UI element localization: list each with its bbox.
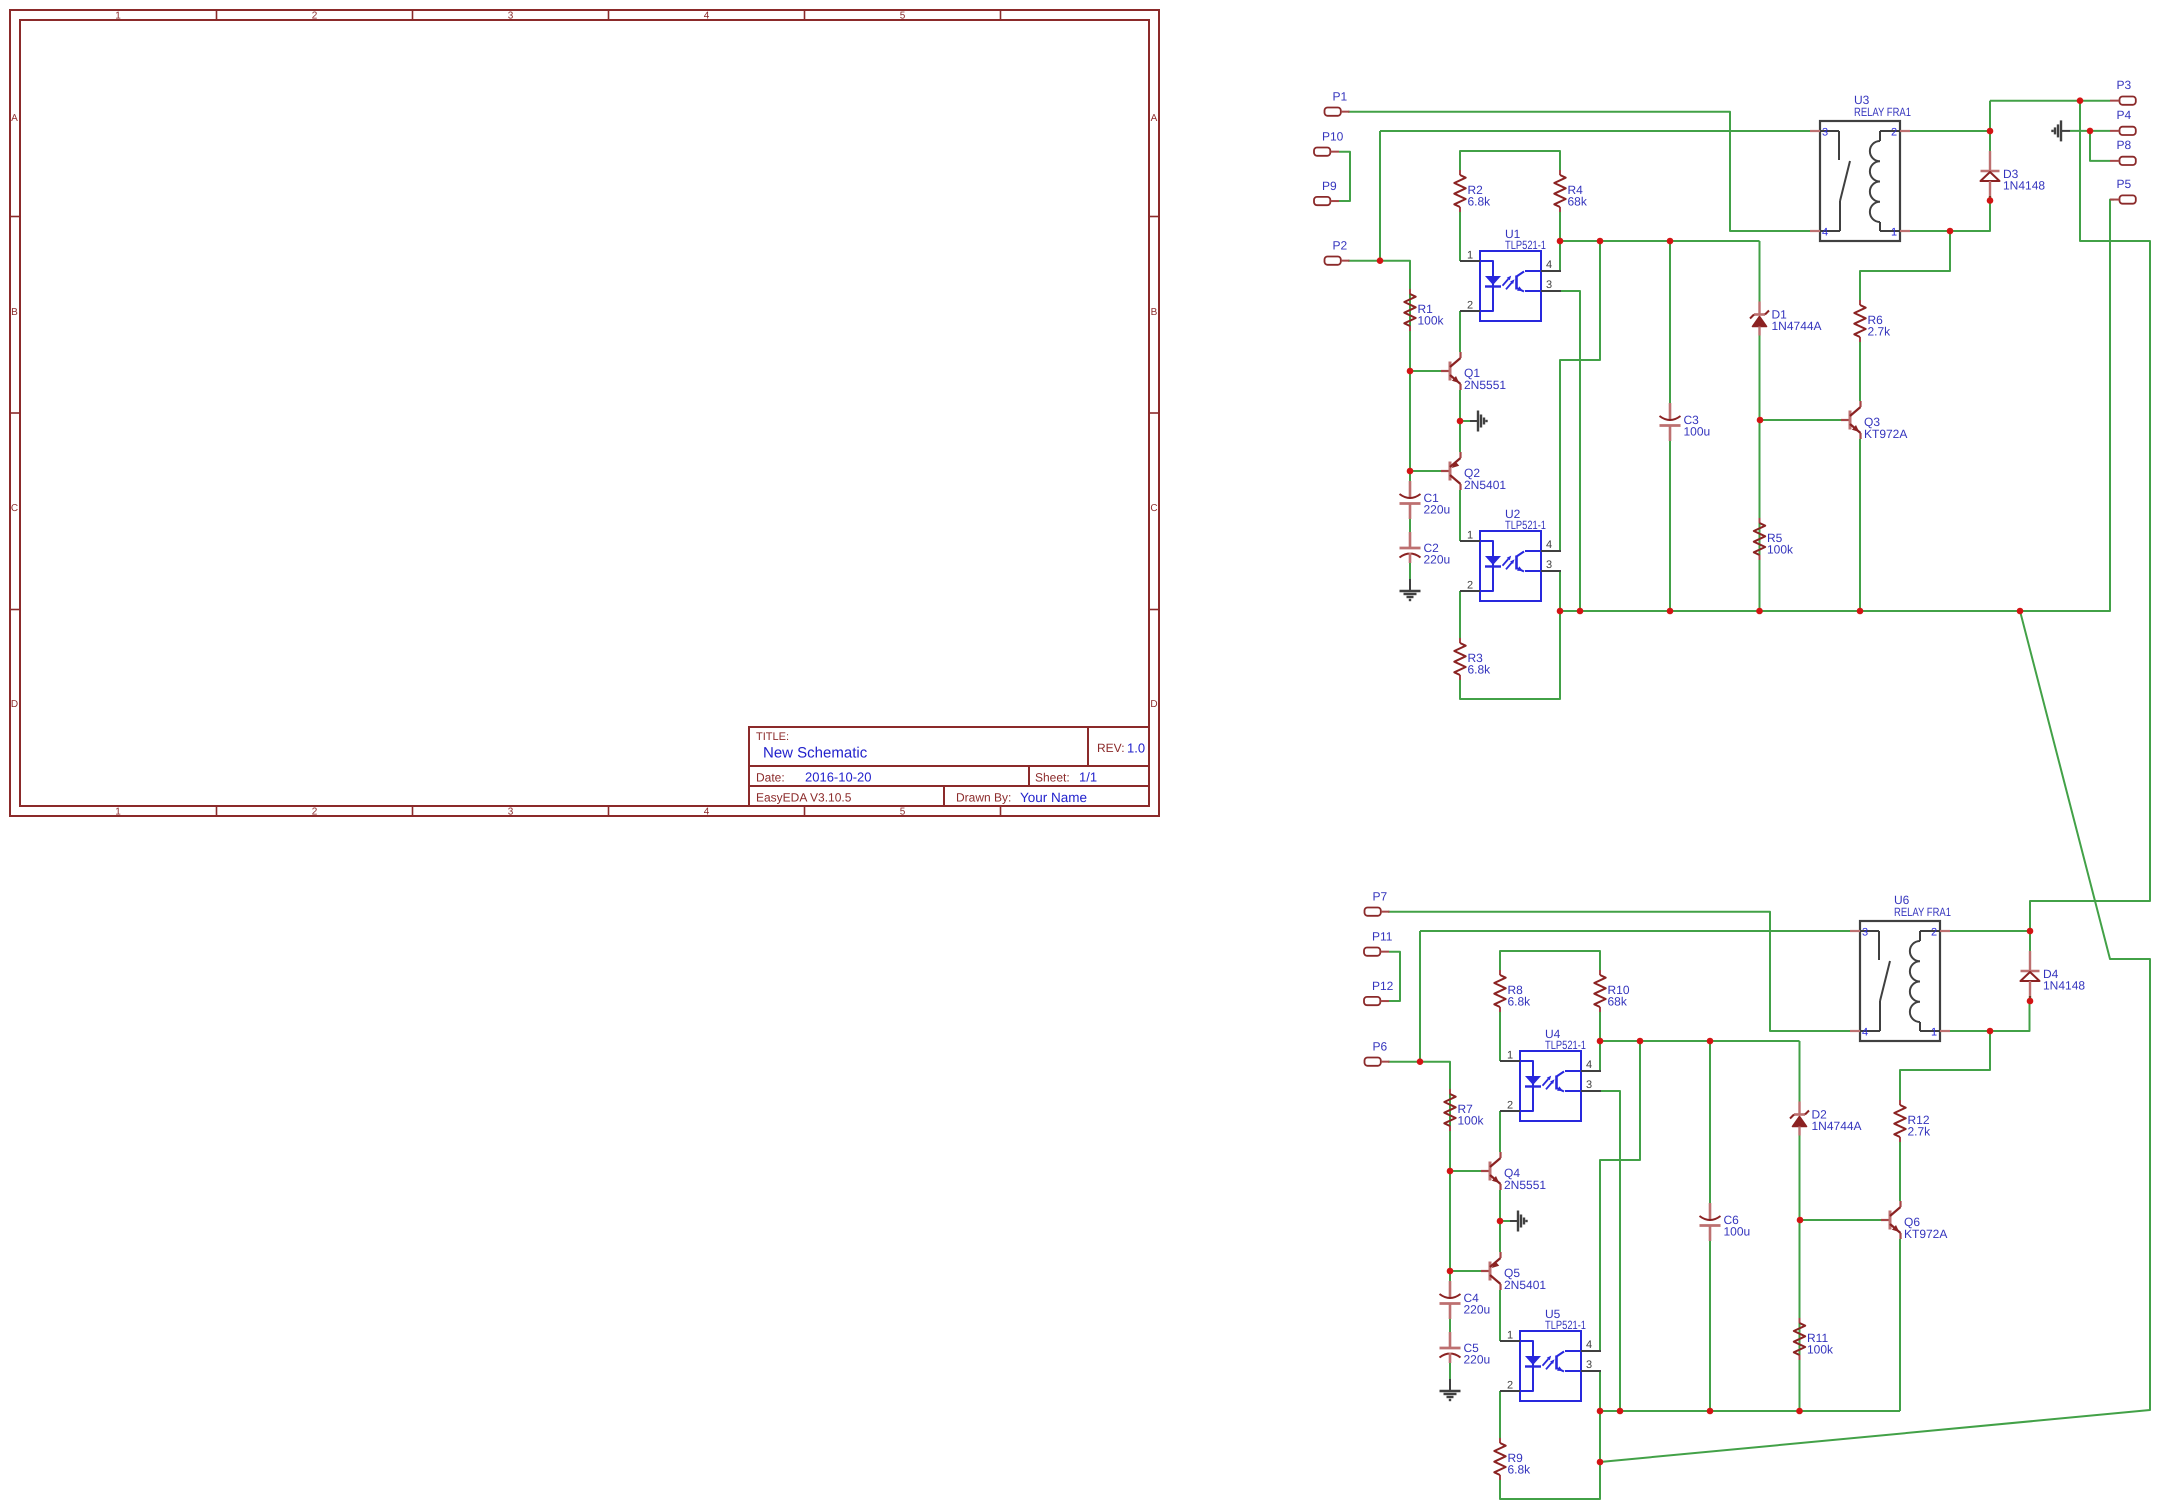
svg-text:TITLE:: TITLE:: [756, 731, 789, 743]
svg-text:2N5401: 2N5401: [1504, 1278, 1546, 1292]
svg-text:3: 3: [1586, 1359, 1592, 1371]
diode D4: [2021, 951, 2086, 1000]
svg-text:68k: 68k: [1608, 995, 1628, 1009]
svg-text:Drawn By:: Drawn By:: [956, 791, 1011, 805]
svg-text:Sheet:: Sheet:: [1035, 771, 1070, 785]
wire C6 lower branch: [1709, 1241, 1711, 1411]
wire gnd diagonal link: [1600, 611, 2150, 1462]
junction Q2 base node: [1407, 468, 1414, 475]
svg-text:4: 4: [1586, 1059, 1592, 1071]
resistor R3: [1454, 638, 1491, 680]
svg-text:1: 1: [1931, 1027, 1937, 1039]
wire D3 to relay pin1 node: [1950, 201, 1990, 232]
resistor R5: [1754, 518, 1794, 560]
wire C6 branch: [1709, 1041, 1711, 1203]
resistor R6: [1854, 300, 1891, 342]
junction relay U6 pin1 node: [1987, 1028, 1994, 1035]
svg-text:2: 2: [1467, 300, 1473, 312]
wire U1 pin 2 to Q1 collector: [1459, 311, 1461, 352]
zener diode D2: [1790, 1102, 1862, 1136]
resistor R1: [1404, 289, 1444, 331]
wire U4 pin 4 riser: [1599, 1041, 1601, 1071]
wire P3 net top: [1990, 100, 2110, 102]
wire C3 lower branch: [1669, 441, 1671, 611]
junction U4 pin3 node: [1617, 1408, 1624, 1415]
wire R4 bottom to node: [1559, 212, 1561, 241]
svg-text:6.8k: 6.8k: [1508, 995, 1532, 1009]
svg-text:220u: 220u: [1464, 1353, 1491, 1367]
wire R6 to Q3 collector: [1859, 342, 1861, 401]
svg-text:1.0: 1.0: [1127, 741, 1145, 756]
svg-text:TLP521-1: TLP521-1: [1545, 1038, 1586, 1052]
wire Q4 base link: [1450, 1170, 1481, 1172]
pin P2: [1325, 239, 1350, 265]
wire VCC bus y1041: [1600, 1040, 1800, 1042]
wire Q6 emitter drop: [1899, 1239, 1901, 1411]
svg-text:C: C: [11, 503, 18, 514]
ground near Q1: [1460, 411, 1487, 432]
svg-text:6.8k: 6.8k: [1468, 195, 1492, 209]
svg-text:3: 3: [508, 807, 514, 818]
pin P10: [1314, 130, 1344, 156]
svg-text:2: 2: [312, 807, 318, 818]
ground below C5: [1440, 1379, 1461, 1400]
wire R3 bottom loop: [1460, 611, 1560, 699]
svg-text:6.8k: 6.8k: [1468, 663, 1492, 677]
wire Q6 base link: [1800, 1219, 1881, 1221]
junction Q3 base node: [1757, 417, 1764, 424]
ground below C2: [1400, 579, 1421, 600]
pin P9: [1314, 179, 1339, 205]
junction R5 bottom node: [1756, 608, 1763, 615]
junction P4 P8 node: [2087, 128, 2094, 135]
transistor Q1: [1441, 352, 1506, 392]
svg-text:C: C: [1150, 503, 1157, 514]
wire C3 branch: [1669, 241, 1671, 403]
wire R7 to Q4 Q5 bases: [1449, 1089, 1451, 1292]
svg-text:Date:: Date:: [756, 771, 785, 785]
svg-text:TLP521-1: TLP521-1: [1505, 518, 1546, 532]
title block: [749, 727, 1149, 806]
wire D4 top link: [2029, 931, 2031, 951]
junction C3 bottom node: [1667, 608, 1674, 615]
wire relay U3 pin 1 link: [1910, 230, 1950, 232]
wire relay U3 pin 2 link: [1910, 130, 1990, 132]
wire Q5 collector to U5 pin 1: [1499, 1290, 1501, 1341]
svg-text:B: B: [1151, 307, 1158, 318]
svg-text:P9: P9: [1322, 179, 1337, 193]
wire U5 pin 2 to R9: [1499, 1391, 1501, 1438]
svg-text:4: 4: [1586, 1339, 1592, 1351]
junction Q6 base node: [1797, 1217, 1804, 1224]
svg-text:2N5551: 2N5551: [1504, 1178, 1546, 1192]
svg-text:4: 4: [1546, 539, 1552, 551]
relay U6: [1850, 893, 1951, 1041]
svg-text:100k: 100k: [1458, 1114, 1485, 1128]
svg-text:2: 2: [312, 11, 318, 22]
svg-text:D: D: [11, 699, 18, 710]
wire U1 pin 4 riser: [1559, 241, 1561, 271]
capacitor C5: [1440, 1332, 1491, 1367]
wire D1 branch upper: [1759, 241, 1761, 302]
wire D1 to Q3 base to R5: [1759, 336, 1761, 612]
transistor Q3: [1841, 401, 1907, 441]
wire P1 to relay U3 pin 4: [1348, 112, 1810, 231]
pin P5: [2110, 177, 2136, 204]
junction P6 node: [1417, 1058, 1424, 1065]
svg-text:1: 1: [1507, 1050, 1513, 1062]
pin P1: [1325, 90, 1350, 116]
transistor Q5: [1481, 1252, 1546, 1292]
pin P8: [2110, 138, 2136, 165]
capacitor C2: [1400, 532, 1451, 567]
svg-text:4: 4: [704, 11, 710, 22]
svg-text:1N4744A: 1N4744A: [1812, 1119, 1862, 1133]
svg-text:EasyEDA V3.10.5: EasyEDA V3.10.5: [756, 791, 852, 805]
wire C4 C5 link: [1449, 1319, 1451, 1333]
svg-text:6.8k: 6.8k: [1508, 1463, 1532, 1477]
junction C3 top node: [1667, 238, 1674, 245]
wire Q2 collector to U2 pin 1: [1459, 490, 1461, 541]
svg-text:3: 3: [1546, 279, 1552, 291]
svg-text:TLP521-1: TLP521-1: [1505, 238, 1546, 252]
svg-text:REV:: REV:: [1097, 741, 1125, 755]
svg-text:P10: P10: [1322, 130, 1344, 144]
svg-text:A: A: [11, 113, 18, 124]
wire P11 to P12 link: [1389, 952, 1400, 1001]
svg-text:Your Name: Your Name: [1020, 790, 1087, 805]
wire U5 pin 4 riser: [1600, 1041, 1640, 1351]
wire relay pin1 to R6: [1860, 231, 1950, 300]
wire ground bus y1411: [1600, 1410, 1900, 1412]
svg-text:100u: 100u: [1724, 1225, 1751, 1239]
wire P4 link: [2070, 130, 2110, 132]
wire Q4 emitter to gnd node: [1499, 1190, 1501, 1252]
junction R11 bottom node: [1796, 1408, 1803, 1415]
svg-text:2: 2: [1507, 1100, 1513, 1112]
wire D2 branch upper: [1799, 1041, 1801, 1102]
wire P6 riser to relay U6 pin 3: [1420, 930, 1850, 932]
svg-text:4: 4: [1862, 1027, 1868, 1039]
svg-text:TLP521-1: TLP521-1: [1545, 1318, 1586, 1332]
junction Q4 base node: [1447, 1168, 1454, 1175]
resistor R11: [1794, 1318, 1834, 1360]
optocoupler U4: [1500, 1027, 1601, 1121]
wire U2 pin 4 riser: [1560, 241, 1600, 551]
wire D2 to Q6 base to R11: [1799, 1136, 1801, 1412]
svg-text:P6: P6: [1373, 1040, 1388, 1054]
wire R9 bottom loop: [1500, 1411, 1600, 1499]
svg-text:1: 1: [115, 807, 121, 818]
svg-text:RELAY FRA1: RELAY FRA1: [1894, 905, 1951, 919]
junction P3 node: [2077, 97, 2084, 104]
junction D4 bottom node: [2027, 998, 2034, 1005]
optocoupler U1: [1460, 227, 1561, 321]
svg-text:100k: 100k: [1807, 1343, 1834, 1357]
diode D3: [1981, 151, 2046, 200]
junction C6 top node: [1707, 1038, 1714, 1045]
svg-text:P11: P11: [1372, 930, 1393, 944]
svg-text:2N5551: 2N5551: [1464, 378, 1506, 392]
svg-text:4: 4: [704, 807, 710, 818]
transistor Q2: [1441, 452, 1506, 492]
svg-text:1: 1: [1467, 530, 1473, 542]
wire R2 bottom to U1 pin 1: [1459, 212, 1461, 261]
svg-text:1: 1: [1891, 227, 1897, 239]
zener diode D1: [1750, 302, 1822, 336]
junction C6 bottom node: [1707, 1408, 1714, 1415]
wire P2 riser vertical: [1379, 131, 1381, 261]
svg-text:New Schematic: New Schematic: [763, 745, 868, 762]
wire relay pin1 node to D4: [1990, 1001, 2030, 1031]
wire P6 riser vertical: [1419, 931, 1421, 1062]
wire P7 to relay U6 pin 4: [1388, 912, 1850, 1031]
svg-text:2: 2: [1931, 927, 1937, 939]
junction Q5 base node: [1447, 1268, 1454, 1275]
capacitor C4: [1440, 1281, 1491, 1319]
svg-text:2N5401: 2N5401: [1464, 478, 1506, 492]
svg-text:4: 4: [1822, 227, 1828, 239]
svg-text:3: 3: [508, 11, 514, 22]
svg-text:1N4744A: 1N4744A: [1772, 319, 1822, 333]
svg-text:D: D: [1150, 699, 1157, 710]
svg-text:2: 2: [1507, 1380, 1513, 1392]
svg-text:3: 3: [1586, 1079, 1592, 1091]
resistor R8: [1494, 970, 1531, 1012]
wire P6 row to R7: [1388, 1062, 1450, 1089]
wire U4 pin 2 to Q4 collector: [1499, 1111, 1501, 1152]
svg-text:P5: P5: [2117, 177, 2132, 191]
svg-text:220u: 220u: [1424, 503, 1451, 517]
svg-text:KT972A: KT972A: [1904, 1227, 1947, 1241]
svg-text:P7: P7: [1373, 890, 1388, 904]
wire C2 to ground: [1409, 558, 1411, 579]
svg-text:3: 3: [1822, 127, 1828, 139]
pin P3: [2110, 78, 2136, 105]
svg-text:P3: P3: [2117, 78, 2132, 92]
svg-text:5: 5: [900, 11, 906, 22]
pin P7: [1365, 890, 1390, 916]
wire U4 pin 3 drop: [1600, 1091, 1620, 1411]
svg-text:RELAY FRA1: RELAY FRA1: [1854, 105, 1911, 119]
wire P10 to P9 link: [1339, 152, 1350, 201]
svg-text:2016-10-20: 2016-10-20: [805, 770, 872, 785]
svg-text:100k: 100k: [1767, 543, 1794, 557]
wire R12 to Q6 collector: [1899, 1142, 1901, 1201]
junction relay U6 pin2 D4 node: [2027, 928, 2034, 935]
junction diag takeoff node: [2017, 608, 2024, 615]
junction relay1 R6 node: [1947, 228, 1954, 235]
wire U1 pin 3 drop: [1560, 291, 1580, 611]
resistor R4: [1554, 170, 1588, 212]
svg-text:1: 1: [1467, 250, 1473, 262]
wire Q3 emitter drop: [1859, 439, 1861, 611]
wire P3 node drop: [2030, 101, 2150, 931]
junction U2 pin4 node: [1597, 238, 1604, 245]
capacitor C6: [1700, 1203, 1751, 1241]
capacitor C1: [1400, 481, 1451, 519]
sheet frame border: [10, 10, 1159, 818]
wire R1 to Q1 Q2 bases: [1409, 289, 1411, 492]
svg-text:1N4148: 1N4148: [2003, 179, 2045, 193]
svg-text:P4: P4: [2117, 108, 2132, 122]
svg-text:100k: 100k: [1418, 314, 1445, 328]
junction relay2 D3 node: [1987, 128, 1994, 135]
wire P2 row to R1: [1348, 261, 1410, 289]
transistor Q4: [1481, 1152, 1546, 1192]
wire relay U6 pin1 to R12: [1900, 1031, 1990, 1100]
svg-text:1/1: 1/1: [1079, 770, 1097, 785]
wire relay U6 pin 1 link: [1950, 1030, 1990, 1032]
junction R4 node: [1557, 238, 1564, 245]
svg-text:68k: 68k: [1568, 195, 1588, 209]
resistor R9: [1494, 1438, 1531, 1480]
resistor R2: [1454, 170, 1491, 212]
pin P4: [2110, 108, 2136, 135]
resistor R10: [1594, 970, 1630, 1012]
wire VCC bus y241: [1560, 240, 1760, 242]
junction Q1 base node: [1407, 368, 1414, 375]
svg-text:P12: P12: [1372, 979, 1394, 993]
wire U5 pin 3 drop: [1599, 1371, 1601, 1411]
relay U3: [1810, 93, 1911, 241]
svg-text:220u: 220u: [1464, 1303, 1491, 1317]
wire Q2 base link: [1410, 470, 1441, 472]
junction P2 node: [1377, 257, 1384, 264]
wire P8 link: [2090, 131, 2110, 161]
svg-text:5: 5: [900, 807, 906, 818]
transistor Q6: [1881, 1201, 1947, 1241]
junction Q4 Q5 emitter node: [1497, 1218, 1504, 1225]
wire U2 pin 2 to R3: [1459, 591, 1461, 638]
svg-text:KT972A: KT972A: [1864, 427, 1907, 441]
optocoupler U2: [1460, 507, 1561, 601]
wire P3 net to D3: [1989, 101, 1991, 151]
svg-text:2: 2: [1891, 127, 1897, 139]
wire R8 R10 top bracket: [1500, 951, 1600, 974]
svg-text:1: 1: [115, 11, 121, 22]
junction bus1411 left node: [1597, 1408, 1604, 1415]
svg-text:1: 1: [1507, 1330, 1513, 1342]
svg-text:P2: P2: [1333, 239, 1348, 253]
junction D3 bottom node: [1987, 197, 1994, 204]
svg-text:1N4148: 1N4148: [2043, 979, 2085, 993]
svg-text:A: A: [1151, 113, 1158, 124]
optocoupler U5: [1500, 1307, 1601, 1401]
svg-text:220u: 220u: [1424, 553, 1451, 567]
wire U2 pin 3 drop: [1559, 571, 1561, 611]
wire ground bus y611: [1560, 200, 2114, 611]
junction bus611 left node: [1557, 608, 1564, 615]
junction U1 pin3 node: [1577, 608, 1584, 615]
resistor R12: [1894, 1100, 1931, 1142]
wire C1 C2 link: [1409, 519, 1411, 533]
junction Q3 emitter node: [1857, 608, 1864, 615]
wire Q5 base link: [1450, 1270, 1481, 1272]
resistor R7: [1444, 1089, 1484, 1131]
pin P6: [1365, 1040, 1390, 1066]
svg-text:2: 2: [1467, 580, 1473, 592]
wire Q1 emitter to gnd node: [1459, 390, 1461, 452]
svg-text:4: 4: [1546, 259, 1552, 271]
wire P2 riser to relay U3 pin 3: [1380, 130, 1810, 132]
svg-text:3: 3: [1546, 559, 1552, 571]
svg-text:B: B: [11, 307, 18, 318]
wire Q3 base link: [1760, 419, 1841, 421]
wire R10 bottom to node: [1599, 1012, 1601, 1041]
junction R10 node: [1597, 1038, 1604, 1045]
junction diag landing node: [1597, 1459, 1604, 1466]
wire Q1 base link: [1410, 370, 1441, 372]
capacitor C3: [1660, 403, 1711, 441]
wire relay U6 pin 2 link: [1950, 930, 2030, 932]
wire R8 bottom to U4 pin 1: [1499, 1012, 1501, 1061]
pin P11: [1364, 930, 1393, 956]
pin P12: [1364, 979, 1394, 1005]
junction Q1 Q2 emitter node: [1457, 418, 1464, 425]
ground flag near P4: [2053, 120, 2071, 141]
wire C5 to ground: [1449, 1358, 1451, 1379]
svg-text:3: 3: [1862, 927, 1868, 939]
junction U5 pin4 node: [1637, 1038, 1644, 1045]
svg-text:P8: P8: [2117, 138, 2132, 152]
svg-text:2.7k: 2.7k: [1908, 1125, 1932, 1139]
svg-text:P1: P1: [1333, 90, 1348, 104]
ground near Q4: [1500, 1211, 1527, 1232]
wire R2 R4 top bracket: [1460, 151, 1560, 174]
svg-text:100u: 100u: [1684, 425, 1711, 439]
svg-text:2.7k: 2.7k: [1868, 325, 1892, 339]
